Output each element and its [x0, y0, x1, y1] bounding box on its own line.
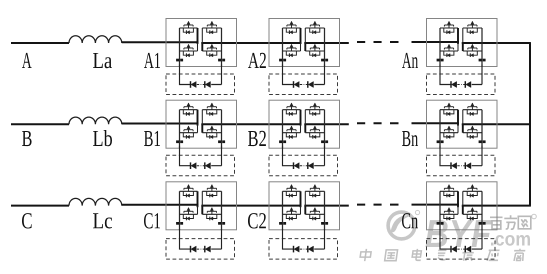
- wire A to cell 1: [122, 41, 199, 43]
- dc-link capacitor box of cell B2: [269, 146, 338, 176]
- node label A2: [248, 53, 259, 68]
- watermark: [360, 210, 537, 261]
- wire cell2 output: [304, 205, 348, 207]
- inductor La: [69, 36, 122, 43]
- H-bridge cell C1: [166, 182, 237, 230]
- wire star-point bus: [529, 43, 531, 206]
- wire cell n to star bus: [462, 205, 531, 207]
- wire B to cell 1: [122, 123, 199, 125]
- wire cell1 to cell2: [201, 42, 301, 44]
- dc-link capacitor box of cell C2: [269, 229, 338, 259]
- dc-link capacitor box of cell An: [427, 65, 496, 95]
- H-bridge cell Bn: [427, 100, 498, 148]
- wire phase B input segment: [11, 123, 69, 125]
- node label Bn: [402, 131, 410, 146]
- node label B1: [144, 131, 153, 146]
- wire cell1 to cell2: [201, 205, 301, 207]
- node C phase input: [22, 213, 32, 228]
- H-bridge cell C2: [269, 182, 340, 230]
- wire into cell n: [412, 122, 459, 124]
- dc-link capacitor box of cell Bn: [427, 146, 496, 176]
- dc-link capacitor box of cell C1: [166, 229, 235, 259]
- wire continuation dashes: [357, 41, 399, 43]
- H-bridge cell A2: [269, 19, 340, 67]
- H-bridge cell B2: [269, 100, 340, 148]
- wire cell2 output: [304, 123, 348, 125]
- inductor Lb: [69, 117, 122, 124]
- wire phase C input segment: [11, 205, 69, 207]
- dc-link capacitor box of cell A2: [269, 65, 338, 95]
- node label Cn: [402, 213, 410, 228]
- wire cell1 to cell2: [201, 123, 301, 125]
- wire phase A input segment: [11, 42, 69, 44]
- wire continuation dashes: [357, 204, 399, 206]
- node A phase input: [22, 53, 32, 68]
- node label B2: [248, 131, 258, 146]
- wire cell n to star bus: [462, 123, 531, 125]
- H-bridge cell B1: [166, 100, 237, 148]
- H-bridge cell An: [427, 19, 498, 67]
- dc-link capacitor box of cell A1: [166, 65, 235, 95]
- wire into cell n: [412, 41, 459, 43]
- wire continuation dashes: [357, 122, 399, 124]
- node label C1: [144, 213, 153, 228]
- node label A1: [144, 53, 154, 68]
- inductor Lc: [69, 198, 122, 205]
- H-bridge cell Cn: [427, 182, 498, 230]
- H-bridge cell A1: [166, 19, 237, 67]
- wire cell n to star bus: [462, 42, 531, 44]
- node label C2: [248, 213, 258, 228]
- dc-link capacitor box of cell Cn: [427, 229, 496, 259]
- node B phase input: [22, 131, 32, 146]
- wire into cell n: [412, 204, 459, 206]
- wire cell2 output: [304, 42, 348, 44]
- node label An: [402, 53, 411, 68]
- wire C to cell 1: [122, 204, 199, 206]
- dc-link capacitor box of cell B1: [166, 146, 235, 176]
